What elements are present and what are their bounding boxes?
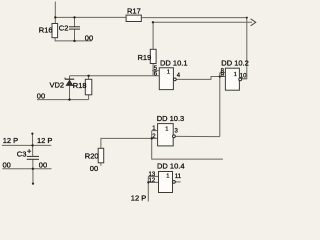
svg-text:12 P: 12 P — [131, 194, 146, 203]
resistor R17 — [126, 15, 141, 21]
inverter bubble DD10.4 pin11 — [173, 181, 176, 184]
junction node top rail / R16 — [54, 16, 56, 18]
svg-text:DD 10.4: DD 10.4 — [157, 162, 185, 171]
wire DD10.1 output to DD10.2 input — [176, 77, 220, 80]
wire DD10.2 inputs down to DD10.3 output — [219, 73, 221, 137]
wire 0V bottom of VD2/R18 — [37, 99, 89, 101]
svg-text:12 P: 12 P — [37, 136, 52, 145]
wire DD10.4 input tie from 12P — [147, 176, 149, 201]
wire R20 bottom lead — [100, 163, 102, 166]
logic gate box DD10.2 — [225, 68, 239, 90]
wire C3 bottom lead — [32, 159, 34, 168]
svg-text:C2: C2 — [59, 24, 69, 33]
svg-text:DD 10.3: DD 10.3 — [157, 114, 185, 123]
junction node rail B start — [152, 21, 154, 23]
wire DD10.2 pin8 line — [220, 72, 226, 74]
inverter bubble DD10.1 pin4 — [173, 78, 176, 81]
logic gate box DD10.4 — [159, 172, 173, 193]
junction node C2 top — [73, 16, 75, 18]
svg-text:11: 11 — [175, 174, 182, 180]
wire R18 bottom lead — [88, 95, 90, 100]
resistor R20 — [98, 148, 104, 163]
junction node DD10.2 input — [219, 75, 221, 77]
wire DD10.2 pin9 line — [220, 76, 226, 78]
logic gate box DD10.3 — [158, 124, 174, 146]
wire VD2 top lead — [69, 76, 71, 79]
svg-text:R20: R20 — [85, 151, 99, 160]
svg-text:1: 1 — [167, 70, 170, 76]
svg-text:R17: R17 — [127, 7, 141, 16]
svg-text:00: 00 — [37, 92, 45, 101]
wire 0V rail bottom left — [2, 168, 51, 170]
junction node R18 top — [87, 75, 89, 77]
junction node C2 bottom — [73, 40, 75, 42]
capacitor C2 — [69, 26, 80, 28]
wire DD10.1 pin5 line — [152, 70, 159, 72]
wire DD10.2 output to rail A drop — [242, 78, 247, 80]
wire bottom of R16/C2 section — [55, 38, 92, 41]
arrow head rail B — [251, 19, 256, 26]
wire DD10.4 pin13 line — [148, 175, 158, 177]
wire DD10.3 input tie down and right — [152, 131, 223, 160]
wire C3 bottom stub — [32, 169, 34, 184]
wire rail A drop to DD10.2 output — [242, 18, 247, 79]
svg-text:R19: R19 — [138, 53, 152, 62]
junction node rail A corner — [246, 17, 248, 19]
junction node DD10.3 pin2 tie — [151, 137, 153, 139]
svg-text:00: 00 — [85, 33, 93, 42]
wire rail B with arrow — [153, 21, 252, 23]
svg-text:12: 12 — [149, 178, 156, 184]
svg-text:DD 10.2: DD 10.2 — [221, 58, 249, 67]
resistor R18 — [85, 79, 92, 95]
inverter bubble DD10.2 pin10 — [239, 78, 242, 81]
wire R19 stub from rail B — [152, 22, 154, 49]
inverter bubble DD10.3 pin3 — [173, 135, 176, 138]
wire C3 top stub — [31, 133, 33, 145]
wire R18 top lead — [88, 76, 90, 80]
wire R19 bottom lead to DD10.1 inputs — [152, 64, 154, 76]
diode VD2 (zener) — [65, 78, 74, 80]
svg-text:1: 1 — [234, 72, 237, 78]
svg-text:VD2: VD2 — [50, 80, 65, 89]
svg-text:DD 10.1: DD 10.1 — [160, 59, 188, 68]
wire DD10.4 pin12 line — [148, 181, 158, 183]
wire VD2 bottom lead — [69, 86, 71, 100]
wire R20 top to DD10.3 pin2 — [101, 138, 152, 148]
svg-text:C3: C3 — [17, 150, 27, 159]
wire 12P rail — [2, 144, 51, 146]
svg-text:12 P: 12 P — [3, 136, 18, 145]
junction node VD2 bottom — [68, 98, 70, 100]
svg-text:00: 00 — [3, 161, 11, 170]
svg-text:10: 10 — [240, 74, 247, 80]
junction node C3 top end — [31, 133, 33, 135]
wire rail A left segment — [55, 16, 126, 18]
svg-text:1: 1 — [165, 126, 168, 132]
wire rail A right segment — [141, 17, 247, 19]
wire C2 top lead — [74, 17, 76, 26]
wire DD10.3 pin1 line — [152, 130, 158, 132]
resistor R19 — [150, 49, 156, 63]
resistor R16 — [52, 24, 58, 38]
wire VD2/R18 node to DD10.1 pin 6 — [70, 75, 160, 77]
wire DD10.3 pin2 line — [152, 137, 158, 139]
wire DD10.4 output stub — [175, 181, 180, 183]
svg-text:00: 00 — [90, 164, 98, 173]
junction node C3 bottom end — [32, 183, 34, 185]
junction node C3 rail1 — [31, 144, 33, 146]
wire DD10.1 output pin stub — [172, 78, 174, 80]
capacitor C3 (polarized) — [27, 155, 39, 157]
op-amp U1: logic gate box DD10.1 — [159, 68, 173, 90]
wire C2 bottom lead — [74, 29, 76, 41]
svg-text:R18: R18 — [73, 81, 87, 90]
svg-text:R16: R16 — [39, 26, 53, 35]
wire C3 top lead — [32, 145, 34, 156]
junction node DD10.4 pin12 tie — [147, 181, 149, 183]
wire top stub above R16 — [54, 2, 56, 24]
junction node C3 rail2 — [32, 168, 34, 170]
wire DD10.3 output horizontal — [175, 135, 220, 137]
svg-text:00: 00 — [39, 161, 47, 170]
svg-text:1: 1 — [166, 174, 169, 180]
